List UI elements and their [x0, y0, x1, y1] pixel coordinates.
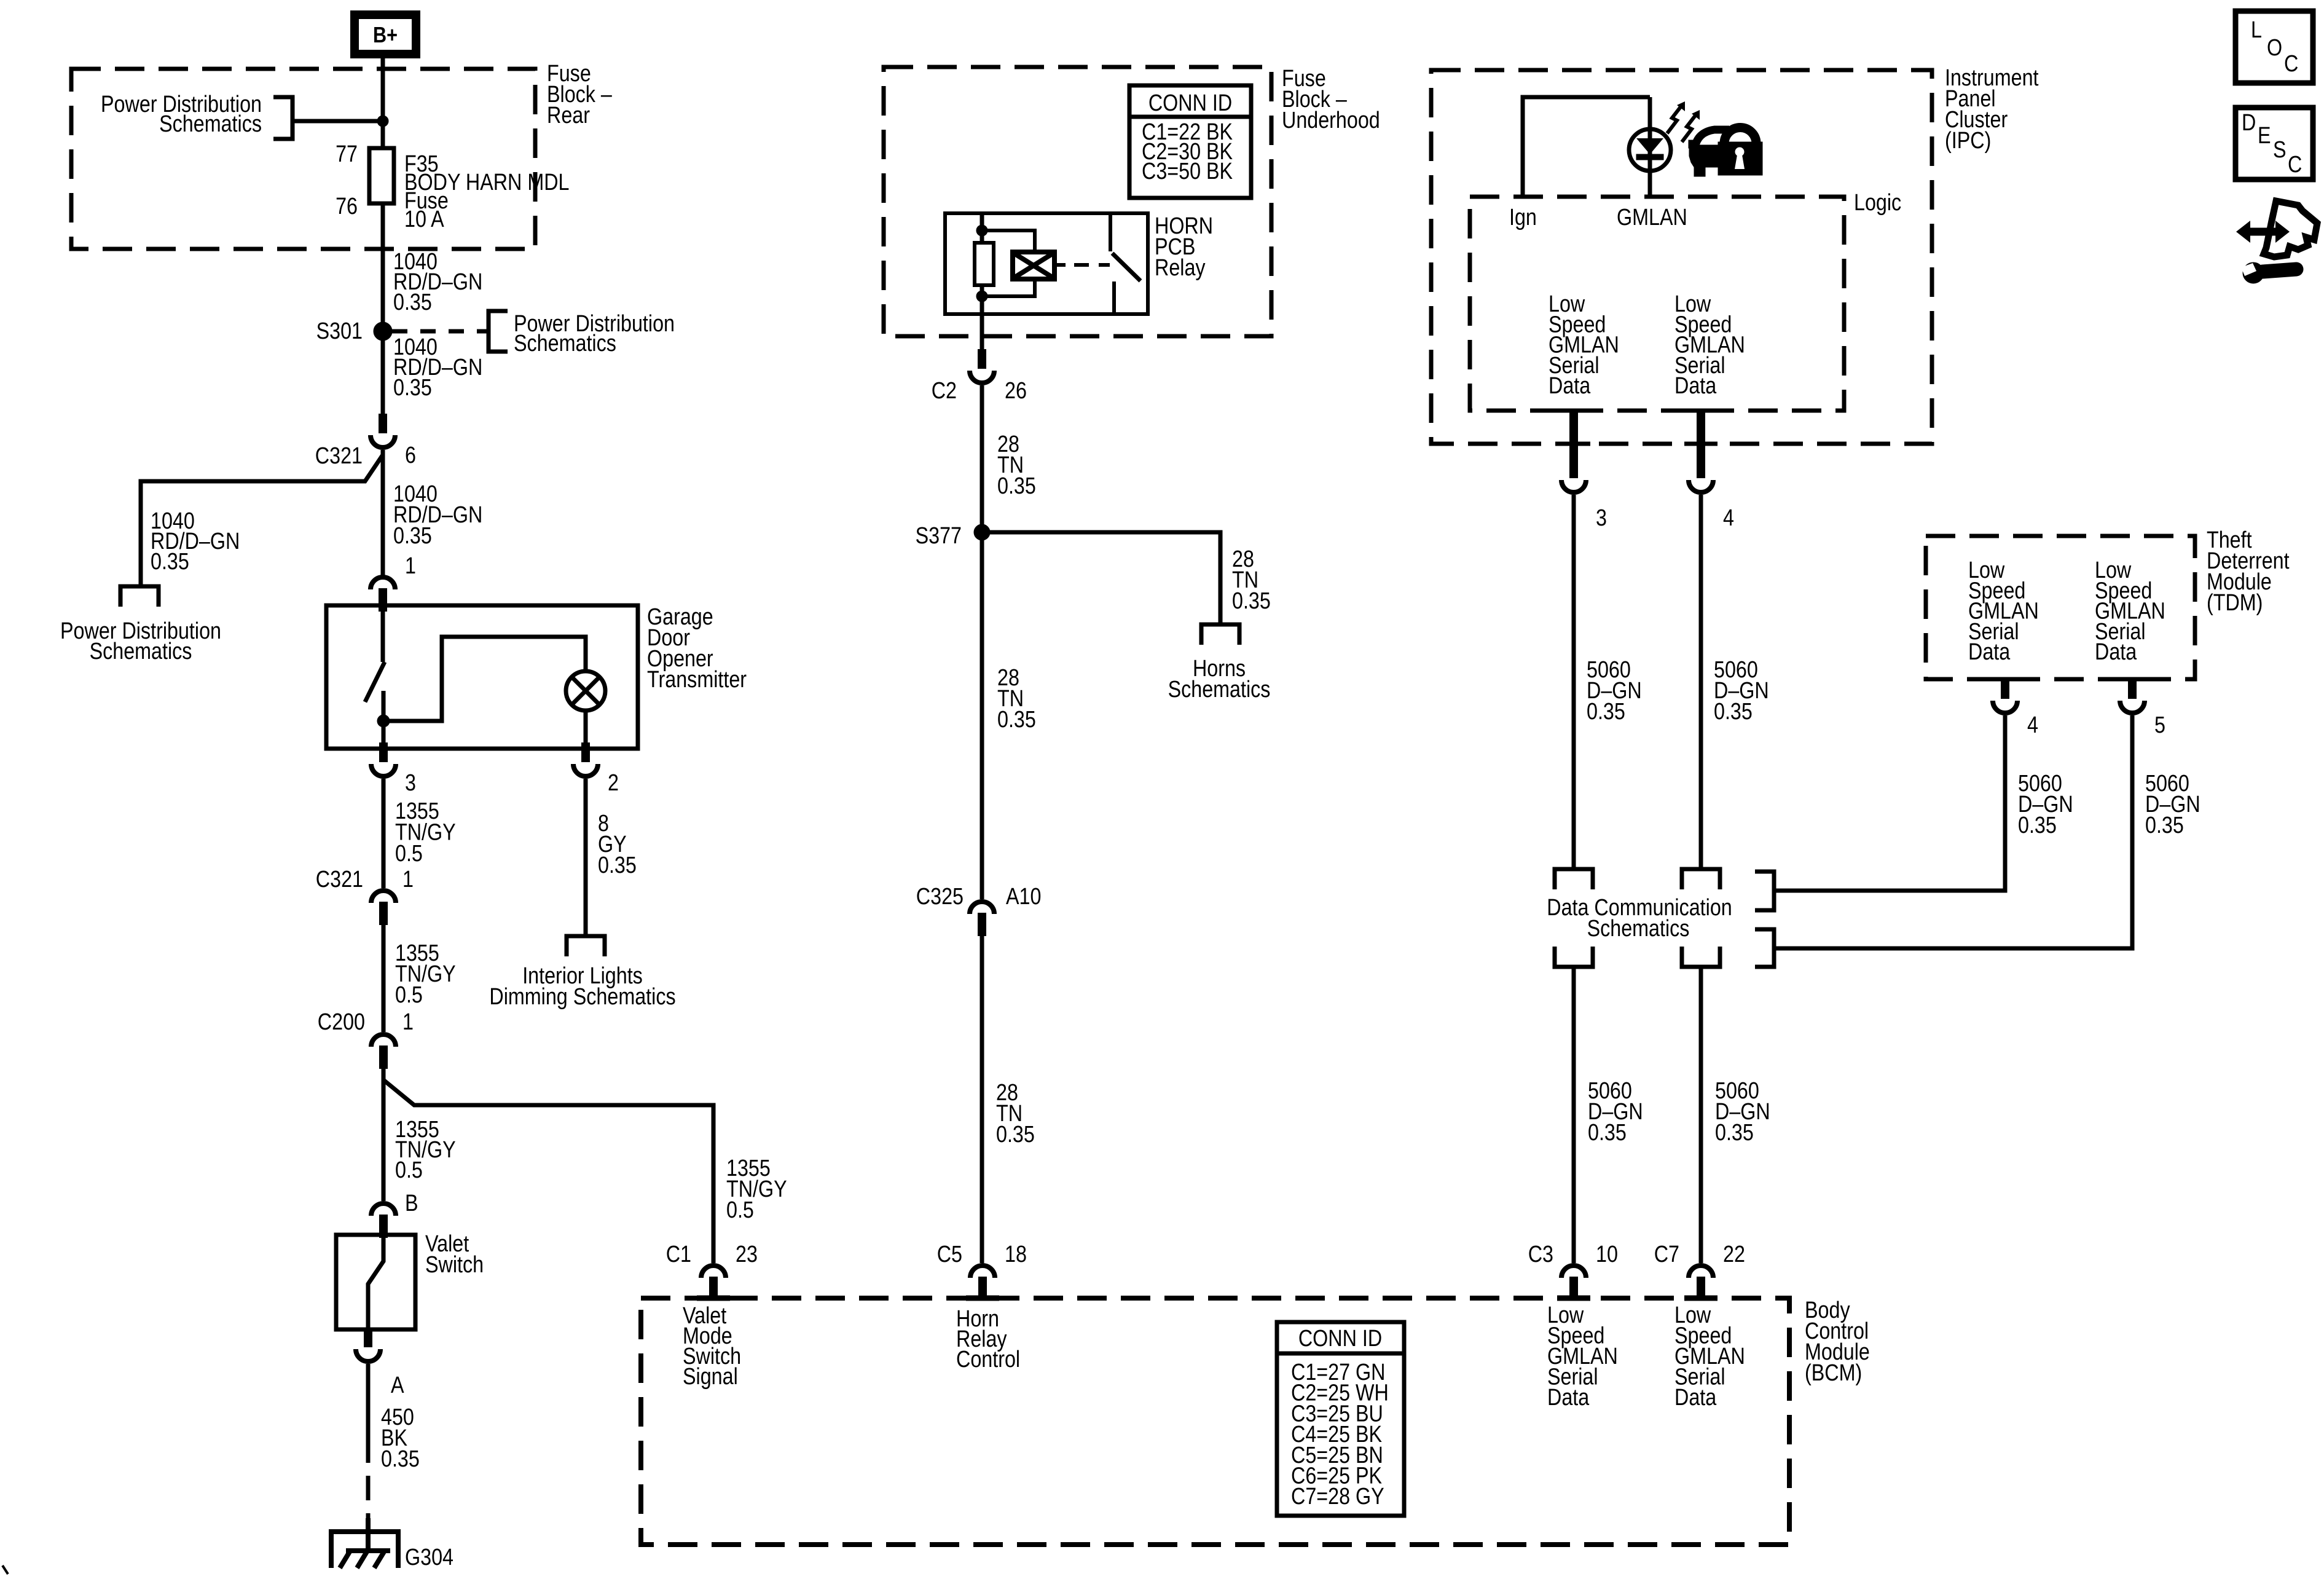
- connector C200 pin 1: [371, 1034, 396, 1047]
- connector C7 pin 22: [1689, 1266, 1713, 1278]
- svg-text:S377: S377: [916, 523, 962, 549]
- BCM connector dash pads: [697, 1296, 730, 1301]
- IPC logic dashed box: [1470, 197, 1844, 411]
- branch diagonal to power distribution: [141, 455, 383, 586]
- svg-text:C7=28 GY: C7=28 GY: [1291, 1484, 1384, 1510]
- fuse F35 body: [369, 148, 394, 203]
- splice S377: [974, 524, 990, 540]
- fuse block underhood dashed box: [884, 67, 1271, 336]
- wire B+ to fuse F35: [381, 58, 385, 151]
- valet switch blade: [368, 1235, 383, 1329]
- wire bracket to node: [292, 119, 383, 124]
- svg-text:D: D: [2242, 110, 2256, 136]
- svg-text:Data: Data: [2095, 639, 2137, 665]
- garage door opener transmitter box: [326, 605, 638, 749]
- svg-text:76: 76: [336, 194, 358, 219]
- DESC reference icon: [2236, 108, 2313, 179]
- svg-text:GMLAN: GMLAN: [1617, 205, 1687, 230]
- garage switch blade: [365, 662, 385, 702]
- svg-text:3: 3: [405, 770, 416, 796]
- svg-text:A10: A10: [1006, 884, 1041, 910]
- IPC internal wire ign: [1523, 97, 1650, 197]
- relay coil branch: [982, 230, 1035, 252]
- svg-text:Ign: Ign: [1509, 205, 1537, 230]
- B+ battery feed box: [355, 15, 416, 54]
- body control module dashed box: [641, 1298, 1789, 1545]
- svg-text:4: 4: [2027, 712, 2038, 738]
- svg-text:S: S: [2273, 137, 2287, 163]
- wire C200 to valet switch pin B: [382, 1069, 386, 1201]
- svg-text:0.5: 0.5: [726, 1197, 754, 1223]
- wire C321-1 to C200: [382, 925, 386, 1032]
- svg-text:6: 6: [405, 443, 416, 468]
- wire S301 to C321 pin 6: [381, 331, 385, 414]
- garage internal wire to lamp: [383, 637, 586, 721]
- vehicle security icon car with padlock: [1695, 130, 1729, 148]
- bracket to horns schematics: [1201, 624, 1239, 645]
- connector valet pin A: [364, 1328, 372, 1347]
- svg-text:0.5: 0.5: [395, 841, 423, 867]
- svg-text:C2: C2: [932, 378, 957, 404]
- wire IPC pin3 to data comm bracket: [1572, 495, 1576, 869]
- connector C1 pin 23: [701, 1266, 726, 1278]
- corner registration mark: [2, 1565, 8, 1574]
- connector C321 pin 1: [371, 891, 396, 903]
- svg-text:2: 2: [608, 770, 619, 796]
- bracket to interior lights dimming: [567, 936, 605, 956]
- svg-text:E: E: [2258, 123, 2271, 149]
- theft deterrent module dashed box: [1926, 536, 2195, 679]
- svg-text:C3: C3: [1528, 1242, 1553, 1267]
- svg-text:Dimming Schematics: Dimming Schematics: [489, 984, 675, 1010]
- svg-text:1: 1: [405, 553, 416, 579]
- svg-text:(TDM): (TDM): [2207, 590, 2263, 616]
- svg-text:(BCM): (BCM): [1805, 1360, 1862, 1386]
- branch to valet mode switch signal: [383, 1080, 713, 1263]
- svg-text:C200: C200: [318, 1009, 365, 1035]
- bracket data comm upper right: [1755, 872, 1774, 910]
- svg-text:0.35: 0.35: [1587, 699, 1625, 725]
- svg-text:Schematics: Schematics: [1587, 916, 1690, 942]
- svg-text:C: C: [2284, 51, 2298, 77]
- svg-text:26: 26: [1005, 378, 1027, 404]
- wire TDM pin4 to data comm: [1776, 715, 2005, 891]
- garage switch wire from pin 1: [381, 605, 385, 662]
- svg-text:Control: Control: [956, 1347, 1020, 1372]
- connector TDM pin 4: [2001, 679, 2009, 699]
- logic and IPC crossing dash pads: [1557, 409, 1590, 413]
- svg-text:5: 5: [2154, 712, 2165, 738]
- connector garage pin 2: [581, 742, 590, 762]
- svg-text:C5: C5: [937, 1242, 962, 1267]
- svg-text:S301: S301: [316, 318, 363, 344]
- svg-text:Transmitter: Transmitter: [647, 667, 747, 693]
- relay top node: [976, 225, 987, 236]
- IPC wire to LED: [1648, 97, 1652, 197]
- svg-text:3: 3: [1596, 505, 1607, 531]
- svg-text:Data: Data: [1547, 1385, 1590, 1411]
- svg-text:23: 23: [736, 1242, 758, 1267]
- wire valet A down: [366, 1364, 371, 1438]
- connector IPC pin 3: [1569, 459, 1578, 478]
- svg-text:C321: C321: [316, 867, 363, 892]
- wire C2 to S377: [980, 385, 984, 532]
- svg-text:O: O: [2267, 35, 2282, 61]
- wire IPC pin4 to data comm bracket: [1699, 495, 1703, 869]
- connector C5 pin 18: [970, 1266, 995, 1278]
- wire data comm to BCM C3: [1572, 967, 1576, 1263]
- junction node on B+ feed: [377, 116, 388, 127]
- svg-text:0.35: 0.35: [997, 707, 1036, 733]
- svg-text:0.5: 0.5: [395, 982, 423, 1008]
- bracket to power distribution (S301): [489, 311, 508, 352]
- bracket data comm upper mid: [1682, 869, 1720, 889]
- dashed wire to ground: [366, 1438, 371, 1521]
- svg-text:0.35: 0.35: [2018, 813, 2057, 838]
- connector garage pin 3: [379, 742, 388, 762]
- svg-text:Relay: Relay: [1155, 255, 1206, 281]
- svg-text:4: 4: [1723, 505, 1734, 531]
- garage lamp wire down: [584, 711, 588, 749]
- svg-text:Underhood: Underhood: [1282, 108, 1380, 133]
- relay switch blade: [1112, 253, 1140, 281]
- svg-text:Switch: Switch: [425, 1252, 484, 1278]
- garage switch node: [377, 715, 390, 727]
- svg-text:0.35: 0.35: [1714, 699, 1753, 725]
- security LED indicator: [1629, 129, 1671, 171]
- TDM box crossing dash pads: [1988, 677, 2022, 682]
- BCM CONN ID table: [1277, 1322, 1404, 1516]
- garage switch lower contact: [382, 691, 386, 721]
- IPC pin 4 stub: [1697, 411, 1705, 459]
- svg-text:0.35: 0.35: [381, 1446, 420, 1472]
- bracket data comm lower right: [1755, 929, 1774, 967]
- svg-text:Schematics: Schematics: [90, 639, 192, 664]
- svg-text:0.5: 0.5: [395, 1157, 423, 1183]
- svg-text:C7: C7: [1654, 1242, 1679, 1267]
- connector C2 pin 26: [978, 349, 986, 369]
- bracket data comm lower mid: [1682, 947, 1720, 967]
- svg-text:Signal: Signal: [683, 1364, 738, 1390]
- relay bottom node: [976, 291, 987, 302]
- garage switch wire down: [382, 727, 386, 749]
- svg-text:Data: Data: [1549, 373, 1591, 399]
- splice S301: [374, 322, 392, 341]
- svg-text:G304: G304: [405, 1545, 453, 1570]
- svg-text:Rear: Rear: [547, 103, 590, 128]
- svg-text:0.35: 0.35: [2145, 813, 2184, 838]
- svg-text:Data: Data: [1674, 373, 1717, 399]
- svg-text:C321: C321: [315, 443, 363, 469]
- svg-text:10 A: 10 A: [404, 207, 444, 232]
- svg-text:Schematics: Schematics: [159, 111, 262, 137]
- relay wire into box: [980, 213, 984, 314]
- bracket data comm lower left: [1555, 947, 1593, 967]
- underhood CONN ID table: [1129, 85, 1251, 198]
- relay switch fixed contact top: [1109, 215, 1112, 251]
- svg-text:0.35: 0.35: [1588, 1120, 1627, 1146]
- LOC reference icon: [2236, 11, 2313, 83]
- svg-text:1: 1: [402, 1009, 414, 1035]
- svg-text:CONN ID: CONN ID: [1148, 90, 1232, 116]
- svg-text:B+: B+: [373, 23, 398, 48]
- svg-text:Data: Data: [1968, 639, 2011, 665]
- svg-text:C3=50 BK: C3=50 BK: [1142, 159, 1233, 184]
- svg-text:CONN ID: CONN ID: [1298, 1326, 1382, 1352]
- connector C3 pin 10: [1561, 1266, 1586, 1278]
- svg-text:C1: C1: [666, 1242, 691, 1267]
- svg-text:10: 10: [1596, 1242, 1618, 1267]
- svg-text:B: B: [405, 1191, 418, 1216]
- connector IPC pin 4: [1697, 459, 1705, 478]
- svg-text:22: 22: [1723, 1242, 1745, 1267]
- svg-text:0.35: 0.35: [151, 549, 189, 575]
- connector TDM pin 5: [2128, 679, 2137, 699]
- LED emission arrows: [1667, 104, 1682, 133]
- wire pin2 down to interior lights bracket: [584, 779, 588, 934]
- relay mechanical link: [1054, 263, 1066, 267]
- branch S377 to horns: [982, 532, 1220, 624]
- relay switch fixed contact bottom: [1112, 282, 1116, 312]
- relay coil box: [1013, 252, 1054, 279]
- svg-text:C: C: [2288, 152, 2302, 178]
- instrument panel cluster dashed box: [1431, 70, 1932, 444]
- bracket data comm upper left: [1555, 869, 1593, 889]
- valet switch box: [336, 1235, 415, 1329]
- svg-text:18: 18: [1005, 1242, 1027, 1267]
- wire data comm to BCM C7: [1699, 967, 1703, 1263]
- svg-text:C325: C325: [916, 884, 964, 910]
- IPC pin 3 stub: [1569, 411, 1578, 459]
- svg-text:0.35: 0.35: [1715, 1120, 1754, 1146]
- garage lamp: [566, 671, 605, 711]
- connector valet pin B: [371, 1203, 396, 1216]
- svg-text:Schematics: Schematics: [514, 331, 616, 356]
- ground G304 symbol: [366, 1518, 371, 1551]
- relay resistor: [975, 243, 994, 285]
- svg-text:Logic: Logic: [1854, 190, 1901, 216]
- svg-text:(IPC): (IPC): [1945, 128, 1991, 154]
- relay wire to C2: [980, 314, 984, 349]
- fuse block rear dashed box: [71, 69, 535, 249]
- wire C325 to C5: [980, 936, 984, 1263]
- connector garage pin 1: [371, 577, 395, 589]
- connector C321 pin 6: [379, 414, 387, 433]
- part locator arrow wrench icon: [2248, 228, 2278, 236]
- svg-text:Data: Data: [1674, 1385, 1717, 1411]
- horn PCB relay box: [945, 213, 1148, 314]
- bracket to power distribution (top): [273, 97, 292, 139]
- svg-text:0.35: 0.35: [393, 375, 432, 401]
- svg-text:L: L: [2251, 17, 2262, 43]
- wire F35 to S301: [381, 203, 385, 331]
- svg-text:0.35: 0.35: [997, 473, 1036, 499]
- svg-text:1: 1: [402, 867, 414, 892]
- svg-text:Schematics: Schematics: [1168, 677, 1271, 703]
- svg-text:0.35: 0.35: [393, 289, 432, 315]
- wire C321-6 down: [381, 450, 385, 577]
- dashed link S301 to power distribution: [392, 329, 489, 334]
- svg-text:A: A: [391, 1372, 404, 1398]
- svg-text:0.35: 0.35: [1232, 588, 1271, 614]
- wire pin3 down to C321 pin 1: [382, 779, 386, 888]
- connector C325 pin A10: [970, 902, 994, 914]
- svg-text:0.35: 0.35: [996, 1122, 1035, 1148]
- svg-text:77: 77: [336, 141, 358, 167]
- svg-text:0.35: 0.35: [598, 853, 637, 878]
- wire S377 to C325: [980, 532, 984, 899]
- wire TDM pin5 to data comm: [1776, 715, 2132, 948]
- svg-text:0.35: 0.35: [393, 523, 432, 549]
- bracket branch to power distribution schematics: [120, 586, 159, 607]
